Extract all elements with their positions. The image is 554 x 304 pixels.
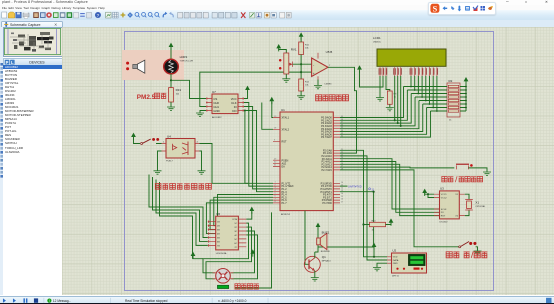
power VCC for IR switch [131,133,136,140]
power VCC right of U7 [245,86,250,93]
wire U7 CLK to U1 P1.1 [244,103,273,187]
power VCC for LCD VDD [357,65,362,72]
ground right of button [483,172,491,175]
svg-text:14: 14 [341,193,343,195]
wire DO branch to U1 P1.0 area [245,111,248,184]
wire P2.6 to timer button [340,166,454,169]
ground under U4 pin3 [198,171,206,174]
rtc U3 DS1302 [434,187,465,224]
svg-text:R12: R12 [305,82,310,84]
node R10 left [362,224,364,226]
svg-text:GND: GND [213,109,219,113]
node RW [397,122,399,124]
label manual/auto timer (red) [442,176,483,182]
svg-text:10k: 10k [305,85,309,87]
svg-text:Q1: Q1 [322,255,326,259]
wire U6 3C to motor right A [231,231,254,273]
wire R13 to ground [170,102,172,107]
svg-text:U4: U4 [167,134,171,138]
wires P0 bus risers to R2 rows [340,87,430,138]
svg-text:R8: R8 [394,94,398,96]
op-amp ADC U7 ADC0832 [206,90,244,119]
wires R2 left to data columns [404,87,448,112]
svg-text:EA: EA [282,166,286,169]
svg-text:1k: 1k [449,120,452,122]
window controls [504,0,550,4]
label IR security detect (red) [155,184,211,190]
svg-text:S: S [433,4,438,13]
wire P3.1 terminal stub [340,185,348,187]
wire divider to U7 CH1 [200,72,301,106]
nodes R2 left [410,86,438,112]
svg-text:+: + [313,72,315,76]
microcontroller U1 AT89C52 [273,108,340,216]
wire P2.3 to U3 SCLK [340,159,440,209]
resistor R10 [370,221,386,232]
stepper motor MOTOR-STEPPER [213,269,234,284]
svg-text:P0.7/AD7: P0.7/AD7 [321,136,332,139]
wire RV1 wiper to op-amp [293,63,312,65]
buzzer BUZ1 [315,227,330,253]
ground under RV1 [282,79,290,82]
svg-text:ADC0832: ADC0832 [212,116,222,119]
wires LCD data columns drop [411,76,437,111]
wire LCD RW to bus [397,76,399,123]
svg-text:RV1: RV1 [291,48,297,52]
wire divider to op-amp [301,71,312,73]
resistor pack R2 [447,79,460,122]
power pull-up for U2 [372,243,377,250]
svg-text:U6: U6 [216,212,220,216]
svg-text:SCLK: SCLK [441,209,447,211]
LDR1 TORCH_LDR [164,55,194,74]
wire power to RV1 [279,49,287,53]
svg-text:LM016L: LM016L [373,42,382,44]
svg-text:XTAL1: XTAL1 [282,117,290,120]
svg-text:DATA: DATA [393,259,399,262]
svg-text:7C: 7C [234,247,237,249]
wire R8 to ground [389,104,391,107]
torch light source icon [126,60,145,73]
svg-text:12 Messag...: 12 Messag... [53,298,71,302]
power VCC for U3 [422,189,427,196]
svg-text:CRYSTAL: CRYSTAL [475,205,486,208]
wire P2.2 to DHT11 DATA [340,156,387,260]
sheet border [125,32,494,291]
wire LDR1 top [170,48,172,60]
wire IR rail A to U6 5B [149,175,208,238]
wire R10 left to rail [364,224,370,226]
svg-text:P2.7/A15: P2.7/A15 [322,169,333,172]
water manual switch [459,242,478,251]
ground under VSS [376,98,384,101]
resistor R12 [299,79,310,91]
wire P3.3 to buzzer driver [318,192,374,247]
svg-text:DHT11: DHT11 [392,276,400,278]
node U7 DO branch [244,110,246,112]
node non-inverting input [300,71,302,73]
svg-text:U7: U7 [212,90,216,94]
wire U4 pin2 to ground [158,151,162,171]
wire U2 GND to ground [377,263,387,267]
svg-text:5C: 5C [234,239,237,241]
wire LCD E to bus [400,76,402,126]
svg-text:1k: 1k [394,97,397,99]
wire P1.4 to U6 1B [216,195,273,222]
label rain sensor (red) [316,95,349,101]
node E [400,125,402,127]
power VCC above R2 rail [464,77,469,84]
wire LCD VSS to ground [379,76,381,97]
op-amp U5:B LM393 [312,50,333,86]
wire power to XTAL1 [272,102,273,118]
svg-text:XTAL2: XTAL2 [282,129,290,132]
ground under R8 [386,108,394,111]
svg-text:R2: R2 [449,79,453,83]
wire U6 1C wrap to motor left A [203,223,249,273]
push button timer set [456,164,473,170]
node inverting input [300,63,302,65]
svg-text:12: 12 [341,188,343,190]
wire button to ground [468,168,487,172]
svg-text:7: 7 [329,65,331,67]
svg-text:LDR1: LDR1 [180,55,188,59]
label PM2.5 detect (red) [137,93,167,101]
svg-text:10k: 10k [305,48,309,50]
svg-text:U1: U1 [281,108,285,112]
wire U6 4C to motor right B [231,235,257,279]
svg-text:22: 22 [341,152,343,154]
svg-text:PM2.5: PM2.5 [137,94,156,101]
svg-text:AT89C52: AT89C52 [281,213,291,216]
wire P1.6 to U6 3B [210,200,273,230]
transistor Q1 MPSA14 [304,211,331,278]
svg-text:TORCH_LDR: TORCH_LDR [180,61,194,63]
svg-text:1C: 1C [234,223,237,225]
svg-text:UART#TXD: UART#TXD [348,185,362,189]
wire R10 right to power [386,223,392,224]
wire op-amp output to U1 P2.1 [328,67,357,153]
ground under U2 [373,268,381,271]
svg-text:MPSA14: MPSA14 [322,260,331,263]
wire U6 2C wrap to motor left B [206,227,252,279]
wire under-board return [235,213,272,289]
svg-text:U2: U2 [392,249,396,253]
crystal X1 [465,194,486,215]
wire IR rail C to U6 7B [156,180,208,246]
label window motor (red) [235,284,259,289]
net label UART (blue) [348,185,375,192]
power VCC above RV1 [276,44,281,51]
svg-text:Real Time Simulation stopped: Real Time Simulation stopped [125,298,168,302]
svg-text:P3.7/RD: P3.7/RD [322,202,332,205]
power VCC above R11 [299,33,304,40]
svg-text:X1: X1 [475,201,479,205]
nodes R2 right rail [465,86,467,109]
svg-text:10k: 10k [176,94,180,96]
wire VDD to power [360,71,384,88]
svg-text:BUZZER: BUZZER [321,251,330,253]
wire IR rail B to U6 6B [153,177,208,241]
svg-text:2C: 2C [234,227,237,229]
label manual water on/off (red) [446,252,487,259]
power VCC lower right of U6 [250,249,255,256]
wires R2 right to rail [460,84,466,112]
humidity sensor U2 DHT11 [387,249,427,278]
power VCC near U1 pin19 [269,97,274,104]
resistor R13 [169,88,182,102]
wire to XTAL2 [262,103,273,130]
wire P2.7 to water switch [340,170,459,247]
wire P1.7 to U6 4B [206,203,273,234]
PM2.5 highlight region [122,50,184,80]
wire P2.4 to U3 IO [340,162,440,213]
ground under R12 [297,96,305,99]
wire branch to VCC2 [428,194,434,197]
ground under R13 [167,107,175,110]
svg-text:?: ? [97,13,100,18]
power VCC right of R10 [389,219,394,226]
svg-text:3C: 3C [234,231,237,233]
svg-text:DS1302: DS1302 [440,222,449,224]
svg-text:PC817: PC817 [166,161,173,163]
motor highlight bar [217,285,228,288]
wire P1.5 to U6 2B [214,197,273,225]
sogou input overlay bar [428,2,496,15]
wire U7 GND to ground [200,111,206,113]
svg-text:ULN2003A: ULN2003A [216,252,227,255]
wire power to motor wrap [193,256,203,259]
svg-text:1k: 1k [372,230,375,232]
node divider junction [170,79,172,81]
wire LCD RS to bus [394,76,396,120]
ground under op-amp [314,86,322,89]
svg-text:x -4600.0 y +2400.0: x -4600.0 y +2400.0 [218,298,246,302]
wire U4 pin3 to ground [200,151,202,171]
wire R11 top [300,37,302,42]
wire U7 VCC to power [244,91,248,99]
wire VEE to R8 [386,76,390,91]
node VCC branch [427,193,429,195]
ground under water switch [474,251,482,254]
IR beam switch [134,137,162,144]
power VCC above buzzer [316,223,321,230]
pin numbers U1 right [341,116,343,203]
svg-text:LM393: LM393 [325,84,332,86]
svg-text:10: 10 [341,182,343,184]
wire COM to power [246,212,252,220]
LCD pin stubs [380,67,437,76]
svg-text:COM: COM [232,219,237,221]
svg-text:VDD: VDD [393,257,398,259]
node P3.3 [373,191,375,193]
svg-text:15: 15 [341,196,343,198]
wire RV1 to ground [285,74,287,79]
ground under U7 [196,113,204,116]
potentiometer RV1 [279,48,297,74]
optocoupler U4 PC817 [162,134,200,162]
wire R11 to R12 [300,55,302,80]
node RS [394,119,396,121]
LCD1 screen [377,49,446,66]
svg-text:RST: RST [441,216,446,218]
svg-text:U3: U3 [440,187,444,191]
svg-text:6C: 6C [234,243,237,245]
wire U7 DI to U1 P1.2 [244,107,273,189]
power VCC left of motor [191,252,196,259]
wire junction to U7 CS [171,80,206,98]
darlington array U6 ULN2003A [208,212,247,255]
wire U7 DO to U1 P1.3 [244,111,273,192]
svg-text:VCC2: VCC2 [441,198,448,200]
svg-text:4C: 4C [234,235,237,237]
resistor R11 [299,42,310,55]
wire IR rail D return [160,182,193,259]
wire LDR1 bottom to R13 [170,74,172,88]
svg-text:LCD1: LCD1 [373,36,381,40]
svg-text:RST: RST [282,141,287,144]
ground under U4 pin2 [154,171,162,174]
wire power to VCC1 [425,193,434,196]
wire R12 to ground [300,91,302,96]
svg-text:U5:B: U5:B [326,50,333,54]
svg-text:P1.7: P1.7 [282,202,288,205]
wire P2.5 to U3 RST [340,164,440,215]
svg-text:17: 17 [341,202,343,204]
svg-text:16: 16 [341,199,343,201]
resistor R8 [387,91,397,104]
power VCC above LDR1 [169,43,174,50]
wire P2.0 to DHT11 VDD rail [340,150,387,256]
LCD1 LM016L label [373,36,382,44]
svg-text:I/O: I/O [441,212,444,214]
svg-text:VCC1: VCC1 [441,194,448,196]
ground under Q1 [311,278,319,281]
wire U4 pin4 to U1 P1.0 [200,144,274,184]
svg-text:GND: GND [393,263,398,265]
svg-text:R11: R11 [305,45,310,47]
power VCC for U6 COM [249,207,254,214]
svg-text:R13: R13 [176,88,182,92]
svg-text:BUZ1: BUZ1 [322,231,330,235]
